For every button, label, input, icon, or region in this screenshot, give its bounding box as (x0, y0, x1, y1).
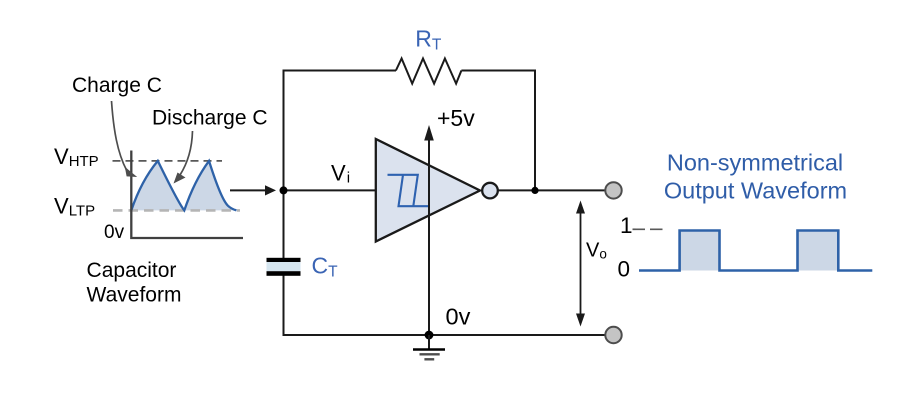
svg-text:Charge C: Charge C (72, 74, 162, 97)
node: input junction (280, 186, 288, 194)
terminal: output top (605, 182, 621, 198)
wire: input to inverter (284, 189, 378, 191)
VHTP threshold dashed line (113, 160, 223, 162)
wire: left vertical below capacitor (283, 275, 285, 336)
output pulse fills (680, 231, 720, 271)
svg-text:Discharge C: Discharge C (152, 107, 268, 130)
terminal: output bottom (605, 327, 621, 343)
svg-text:Non-symmetrical: Non-symmetrical (667, 150, 843, 176)
wire: bottom 0v rail (283, 334, 605, 336)
dash at level 1 (633, 228, 664, 230)
svg-text:0v: 0v (104, 222, 125, 243)
discharge leader arrow (180, 131, 193, 175)
svg-text:Output Waveform: Output Waveform (664, 178, 847, 204)
ground (428, 335, 430, 350)
capacitor charge/discharge waveform fill (131, 161, 236, 211)
Vo measurement arrow (580, 211, 582, 316)
hysteresis symbol (388, 175, 430, 206)
capacitor charge/discharge waveform curve (131, 161, 236, 211)
resistor RT (396, 59, 462, 84)
node: output junction (531, 187, 538, 194)
charge leader arrow (112, 101, 127, 170)
Schmitt trigger inverter U1 (376, 139, 480, 242)
node: ground junction (425, 331, 434, 340)
wire: output to terminal (497, 189, 606, 191)
capacitor CT (267, 262, 301, 271)
svg-text:Capacitor: Capacitor (87, 259, 177, 282)
svg-text:0: 0 (618, 257, 631, 282)
svg-text:Waveform: Waveform (87, 284, 182, 307)
wire: supply/ground vertical through inverter (428, 139, 430, 336)
svg-text:0v: 0v (446, 303, 471, 329)
wire: top rail right segment (461, 70, 536, 72)
wire: right vertical from top rail to output (534, 70, 536, 192)
svg-text:1: 1 (620, 213, 633, 238)
wire: top rail left segment (283, 70, 397, 72)
+5v supply arrow (424, 125, 434, 141)
non-symmetrical output waveform (639, 231, 872, 271)
input signal arrow (230, 189, 266, 191)
svg-text:+5v: +5v (437, 105, 475, 131)
inverter output bubble (482, 183, 498, 199)
VLTP threshold dashed line (113, 209, 240, 212)
wire: left vertical (node Vi to top rail) (283, 71, 285, 260)
waveform axis (131, 151, 243, 239)
